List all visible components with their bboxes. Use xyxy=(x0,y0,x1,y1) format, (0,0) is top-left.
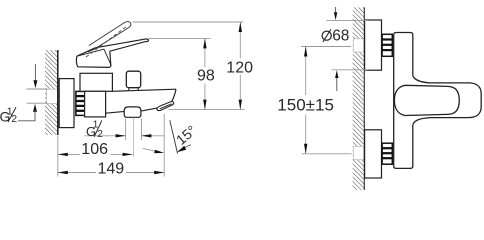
nut (top, ribbed) xyxy=(382,34,392,56)
lever (raised position, thin outline) xyxy=(88,22,131,52)
supply pipe xyxy=(27,89,48,103)
15 degree ray xyxy=(170,120,178,153)
label dia 68 xyxy=(322,27,349,44)
shower hose connection bump (G1/2) xyxy=(124,107,141,117)
supply pipe hole in wall xyxy=(47,89,58,103)
dimension 106 xyxy=(58,141,133,158)
spout end face xyxy=(172,89,176,101)
spout (plan view, outer outline) xyxy=(413,76,481,125)
extension line at raised-lever tip (for 120) xyxy=(133,21,244,23)
dia 68 arrows xyxy=(334,7,339,91)
svg-text:106: 106 xyxy=(81,141,108,158)
svg-text:68: 68 xyxy=(332,27,349,44)
wall-face extension line (below wall) xyxy=(57,136,59,177)
main body block xyxy=(85,91,106,117)
wall (hatched section) xyxy=(45,50,58,135)
svg-text:2: 2 xyxy=(97,129,103,140)
angle arc with arrow (left of tip line) xyxy=(143,149,164,154)
lever handle (plan view, inner outline) xyxy=(394,85,459,115)
lever (horizontal / closed position) xyxy=(95,39,148,51)
escutcheon (bottom connection) xyxy=(365,130,382,178)
extension line at closed-lever tip (for 98) xyxy=(149,37,211,39)
dimension 98 xyxy=(197,38,215,109)
body (plan view) xyxy=(394,33,413,169)
hose bump extension lines xyxy=(125,119,127,141)
G1/2 dimension (hose outlet) xyxy=(85,120,164,140)
escutcheon (top connection) xyxy=(365,20,382,70)
aerator (tilted outlet) xyxy=(157,101,174,110)
connection arrow (up) with G1/2 leader xyxy=(18,104,37,121)
dimension 120 xyxy=(226,22,253,110)
hose centre line xyxy=(132,118,134,157)
connection arrow (down) xyxy=(33,64,37,88)
svg-text:98: 98 xyxy=(197,68,215,85)
escutcheon diameter extension lines xyxy=(326,19,367,21)
wall face line xyxy=(57,50,59,135)
lever raised centerline (dashed) xyxy=(86,27,126,57)
connection centre extension lines (150+-15) xyxy=(301,46,351,48)
nut (bottom, ribbed) xyxy=(382,143,392,164)
wall face line (right view) xyxy=(363,7,365,190)
escutcheon (side) xyxy=(59,79,74,128)
svg-text:150±15: 150±15 xyxy=(277,95,334,114)
svg-text:2: 2 xyxy=(11,113,17,125)
svg-text:149: 149 xyxy=(98,160,125,177)
diverter knob xyxy=(126,71,140,88)
label G1/2 (left) xyxy=(0,105,17,125)
pipe hole (bottom connection) xyxy=(353,146,363,159)
spout underside xyxy=(106,108,157,113)
spout top edge xyxy=(112,89,176,91)
angle arrow (right, at 15 deg ray) xyxy=(177,145,191,152)
spout tip extension line xyxy=(163,114,165,177)
wall (hatched section) xyxy=(353,7,365,190)
connection nut (ribbed) xyxy=(76,91,86,115)
dimension 150+-15 xyxy=(277,47,334,154)
handle cap xyxy=(76,48,111,68)
pipe hole (top connection) xyxy=(353,39,363,52)
cartridge housing (upper body block) xyxy=(80,73,112,91)
svg-text:120: 120 xyxy=(226,60,253,77)
dimension 149 xyxy=(58,160,164,177)
reference line at spout outlet xyxy=(169,109,245,111)
